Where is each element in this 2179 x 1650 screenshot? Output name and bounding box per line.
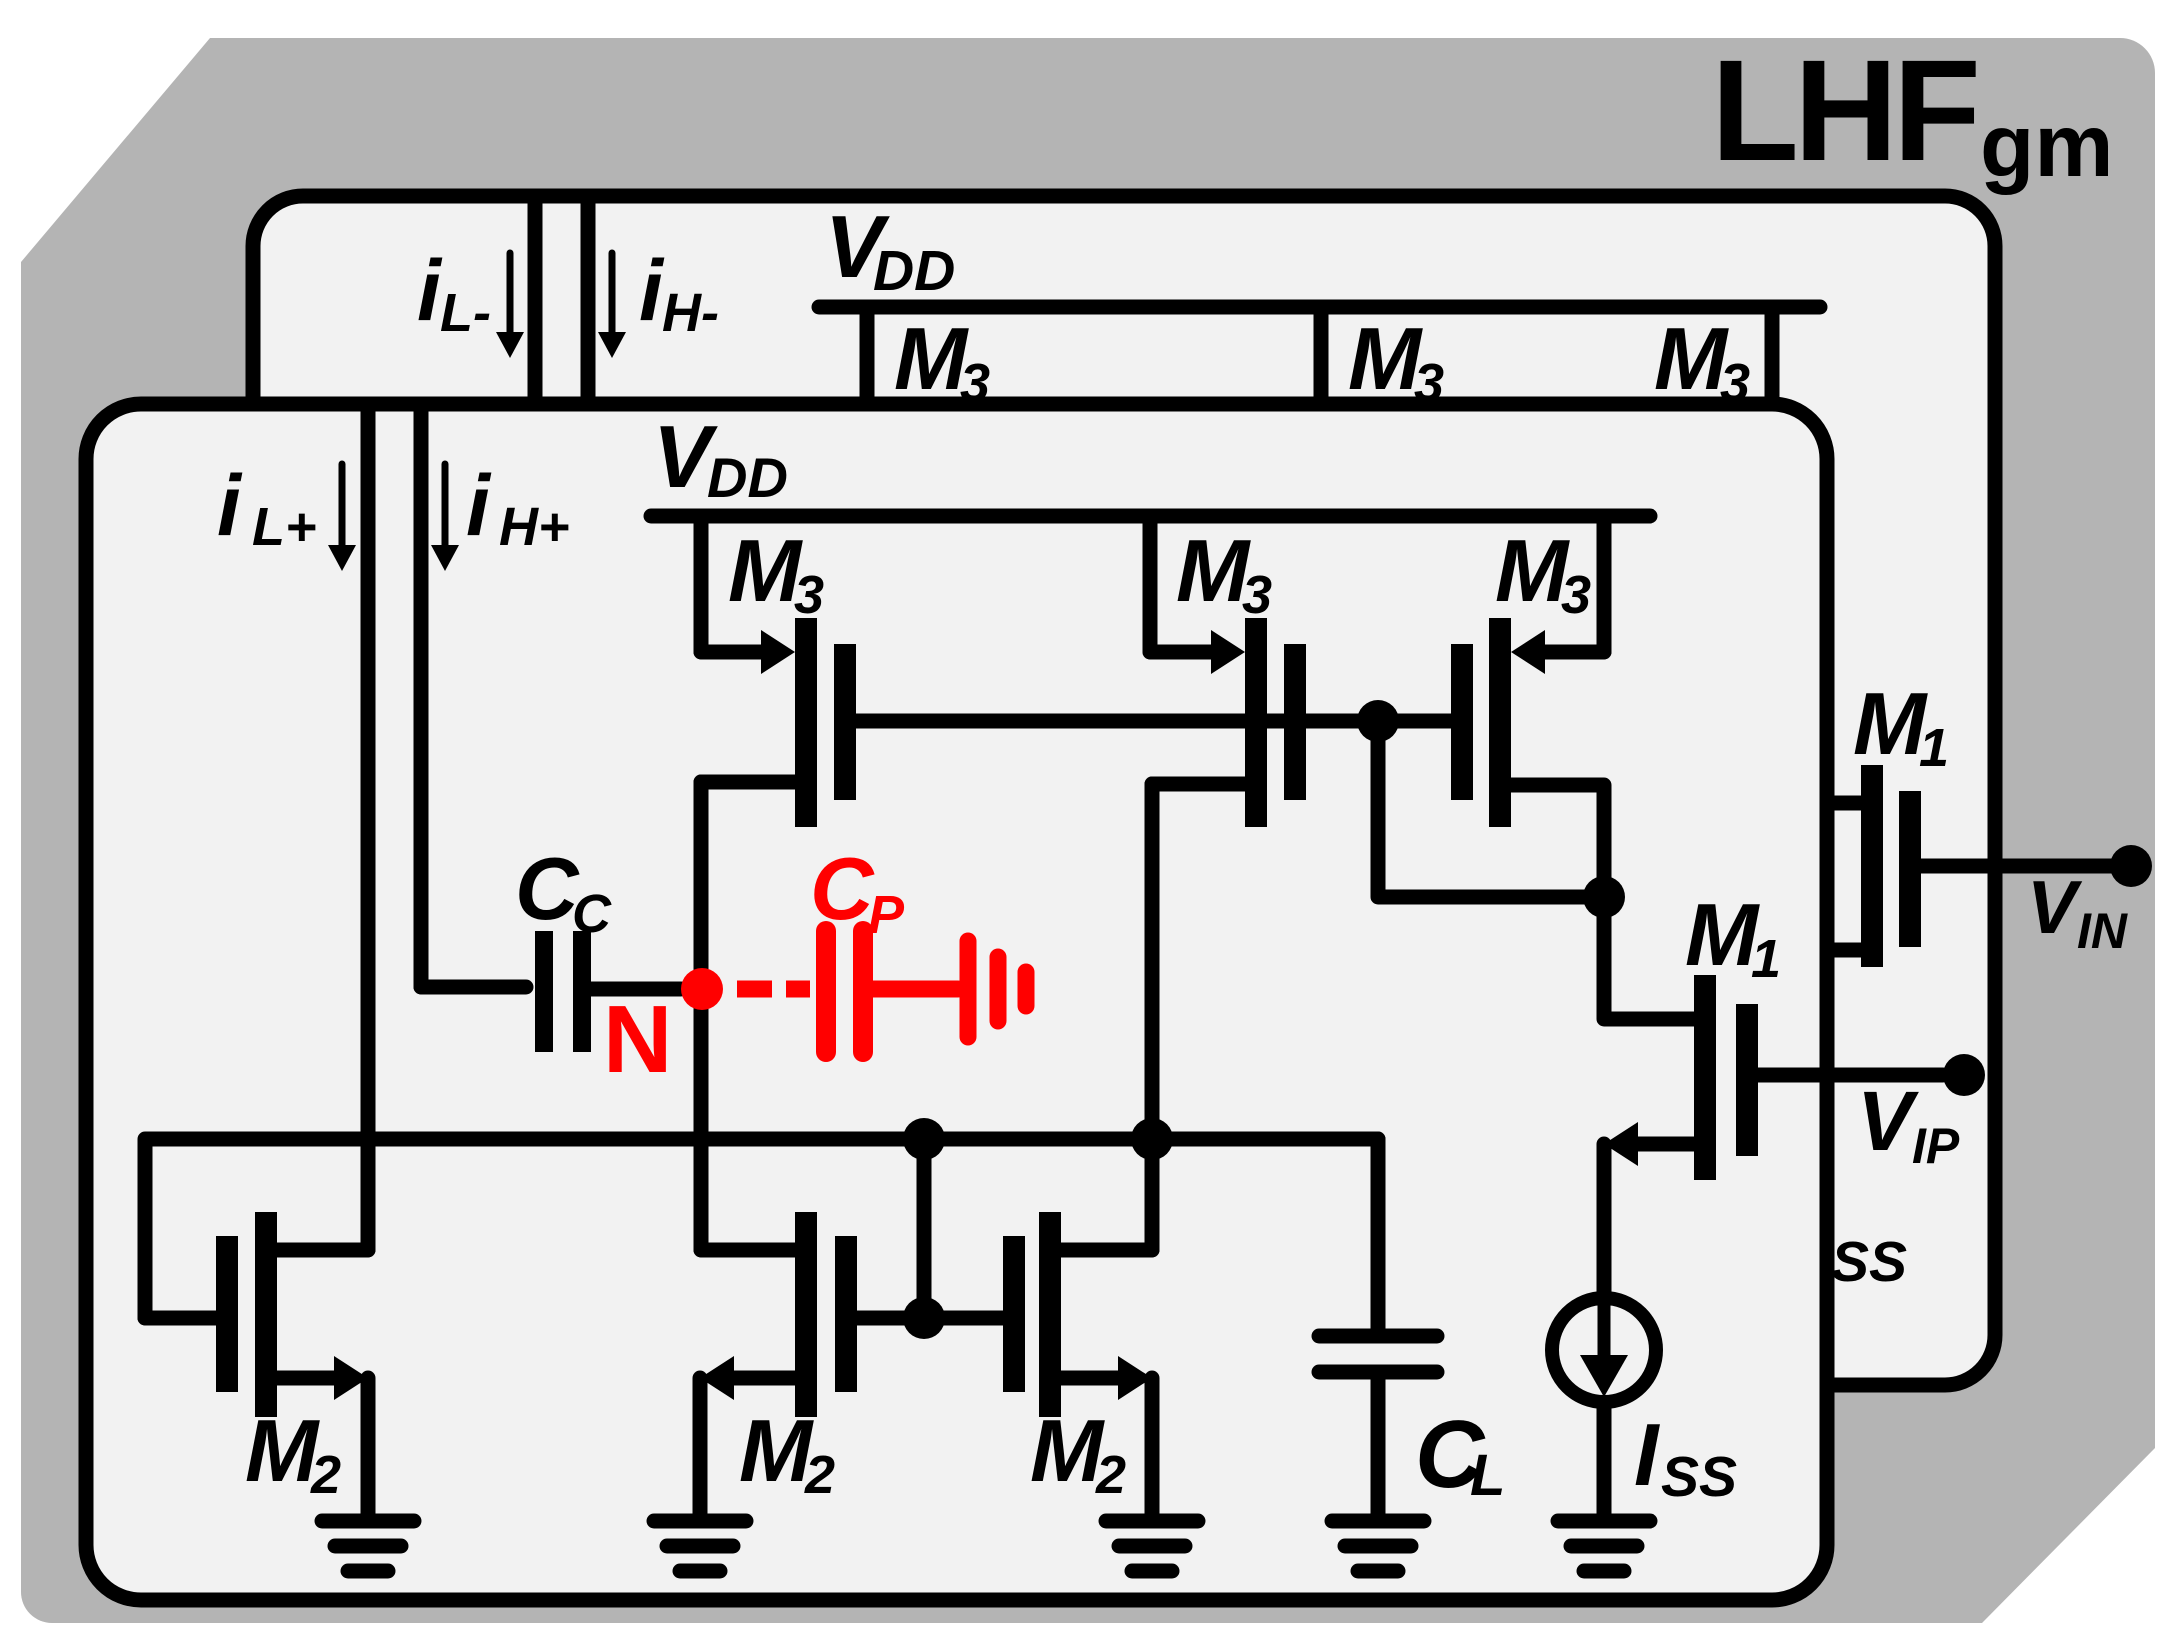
- label CC: [515, 839, 612, 944]
- capacitor CL: [1319, 1336, 1437, 1514]
- svg-text:L+: L+: [252, 497, 317, 557]
- ground (M2 left): [322, 1514, 414, 1529]
- wire iH+ (from top border to CC): [414, 404, 429, 987]
- svg-text:M: M: [1853, 674, 1928, 773]
- transistor M3 (front, right PMOS diode-connected): [1451, 516, 1604, 827]
- label iL-: [417, 243, 491, 343]
- label LHFgm: [1711, 30, 2114, 195]
- node mirror junction: [1583, 876, 1625, 918]
- front OTA instance panel: [86, 404, 1827, 1600]
- label CP (red): [810, 839, 905, 945]
- transistor M1 (back instance, VIN input): [1827, 765, 2115, 967]
- terminal VIN: [2110, 845, 2152, 887]
- wire M3-left drain / node N vertical: [701, 782, 795, 1250]
- svg-text:SS: SS: [1661, 1445, 1737, 1509]
- label M3 (back right): [1654, 309, 1750, 413]
- svg-text:C: C: [572, 884, 612, 944]
- svg-text:3: 3: [794, 565, 824, 625]
- M2 middle-right source lead with arrow: [1061, 1356, 1152, 1514]
- svg-text:3: 3: [1561, 565, 1591, 625]
- M2 middle-left source lead with arrow: [700, 1356, 795, 1514]
- ground (M2 middle-left): [654, 1514, 746, 1529]
- svg-text:M: M: [1654, 309, 1729, 408]
- svg-text:DD: DD: [707, 446, 788, 509]
- node gate-bus junction: [1357, 700, 1399, 742]
- ground (ISS): [1558, 1514, 1650, 1529]
- current arrow iH-: [598, 253, 626, 358]
- svg-text:H+: H+: [499, 497, 570, 557]
- label M2 (left): [245, 1401, 341, 1505]
- svg-text:1: 1: [1751, 929, 1781, 989]
- wire gate bus to right M3 gate: [1378, 714, 1451, 729]
- svg-text:I: I: [1634, 1405, 1660, 1504]
- svg-text:3: 3: [1242, 565, 1272, 625]
- svg-text:M: M: [739, 1401, 814, 1500]
- svg-text:V: V: [1857, 1074, 1919, 1168]
- svg-text:N: N: [603, 986, 672, 1093]
- VDD rail (back): [819, 300, 1820, 315]
- svg-text:1: 1: [1919, 718, 1949, 778]
- label iH-: [639, 243, 719, 343]
- current arrow iL-: [496, 253, 524, 358]
- svg-text:M: M: [245, 1401, 320, 1500]
- wire gate bus to rail: [917, 1139, 932, 1318]
- svg-text:C: C: [810, 839, 875, 938]
- svg-text:V: V: [2027, 865, 2083, 949]
- svg-text:LHF: LHF: [1711, 30, 1976, 191]
- transistor M2 (front left NMOS): [145, 1212, 277, 1417]
- M2 left source lead with arrow: [277, 1356, 368, 1514]
- node rail-junction right (output): [1131, 1118, 1173, 1160]
- M3 source stub (back, left): [860, 307, 875, 404]
- svg-text:C: C: [515, 839, 580, 938]
- current arrow iH+: [431, 464, 459, 571]
- wire M3 gate bus: [856, 714, 1378, 729]
- label VIN: [2027, 865, 2128, 959]
- svg-text:gm: gm: [1980, 95, 2114, 195]
- node rail-junction left (mid M2 gates): [903, 1118, 945, 1160]
- wire mirror node to M1 VIP drain: [1604, 897, 1694, 1019]
- svg-text:M: M: [1685, 885, 1760, 984]
- transistor M2 (front middle-right NMOS): [1003, 1212, 1152, 1417]
- svg-text:2: 2: [1095, 1445, 1126, 1505]
- wire iL- (back instance): [528, 196, 543, 404]
- svg-text:SS: SS: [1831, 1230, 1907, 1294]
- svg-text:M: M: [1348, 309, 1423, 408]
- ground sideways (red, CP): [968, 941, 1026, 1037]
- label M3 (front middle): [1176, 521, 1272, 625]
- label iH+: [466, 458, 570, 557]
- label CL: [1415, 1401, 1505, 1508]
- label M3 (front right): [1495, 521, 1591, 625]
- transistor M1 (front, VIP input NMOS): [1694, 975, 1943, 1180]
- svg-text:IP: IP: [1912, 1118, 1960, 1174]
- M2 left drain lead: [277, 1243, 368, 1258]
- VDD rail (front): [651, 509, 1650, 524]
- label M2 (middle-right): [1030, 1401, 1126, 1505]
- svg-text:M: M: [1176, 521, 1251, 620]
- wire rail to CL: [1371, 1139, 1386, 1330]
- svg-text:2: 2: [310, 1445, 341, 1505]
- svg-text:M: M: [1495, 521, 1570, 620]
- capacitor CP (red, parasitic): [826, 931, 958, 1052]
- dashed red wire N to CP: [737, 981, 810, 998]
- M1 VIP source lead with arrow: [1604, 1122, 1694, 1302]
- label ISS: [1634, 1405, 1737, 1509]
- svg-text:DD: DD: [873, 239, 955, 303]
- wire M3-right drain down: [1511, 785, 1604, 897]
- wire M2 gate rail: [145, 1139, 1378, 1318]
- svg-text:2: 2: [804, 1445, 835, 1505]
- terminal VIP: [1943, 1054, 1985, 1096]
- transistor M3 (front, left PMOS): [701, 516, 856, 827]
- svg-text:M: M: [894, 309, 969, 408]
- svg-text:M: M: [1030, 1401, 1105, 1500]
- label VIP: [1857, 1074, 1960, 1174]
- back OTA instance panel: [253, 196, 1995, 1385]
- wire gate bus down to mirror node: [1378, 721, 1604, 897]
- transistor M2 (front middle-left NMOS): [701, 1212, 857, 1417]
- svg-text:M: M: [728, 521, 803, 620]
- label VDD (front): [653, 407, 788, 509]
- label M3 (back middle): [1348, 309, 1444, 413]
- label iL+: [217, 458, 317, 557]
- label M3 (back left): [894, 309, 990, 413]
- svg-text:L-: L-: [440, 283, 491, 343]
- svg-text:i: i: [466, 458, 492, 554]
- svg-text:P: P: [868, 885, 905, 945]
- label M1 (VIN transistor): [1853, 674, 1949, 778]
- M3 source stub (back, right): [1765, 307, 1780, 404]
- transistor M3 (front, middle PMOS): [1150, 516, 1306, 827]
- capacitor CC: [421, 931, 681, 1052]
- svg-text:H-: H-: [662, 283, 719, 343]
- current arrow iL+: [328, 464, 356, 571]
- svg-text:L: L: [1470, 1443, 1505, 1508]
- wire iL+ (from top border to M2 left drain): [361, 404, 376, 1250]
- label M3 (front left): [728, 521, 824, 625]
- node N (red): [681, 968, 723, 1010]
- wire iH- (back instance): [581, 196, 596, 404]
- label M2 (middle-left): [739, 1401, 835, 1505]
- label VDD (back): [825, 197, 955, 303]
- current source ISS: [1552, 1298, 1656, 1514]
- label M1 (VIP transistor): [1685, 885, 1781, 989]
- svg-text:i: i: [217, 458, 243, 554]
- ground (M2 middle-right): [1106, 1514, 1198, 1529]
- node M2 gates junction: [903, 1297, 945, 1339]
- ground (CL): [1332, 1514, 1424, 1529]
- M2 pair gate bus: [857, 1311, 1003, 1326]
- wire M3-middle drain to output node: [1152, 784, 1245, 1250]
- svg-text:IN: IN: [2077, 903, 2128, 959]
- M3 source stub (back, middle): [1314, 307, 1329, 404]
